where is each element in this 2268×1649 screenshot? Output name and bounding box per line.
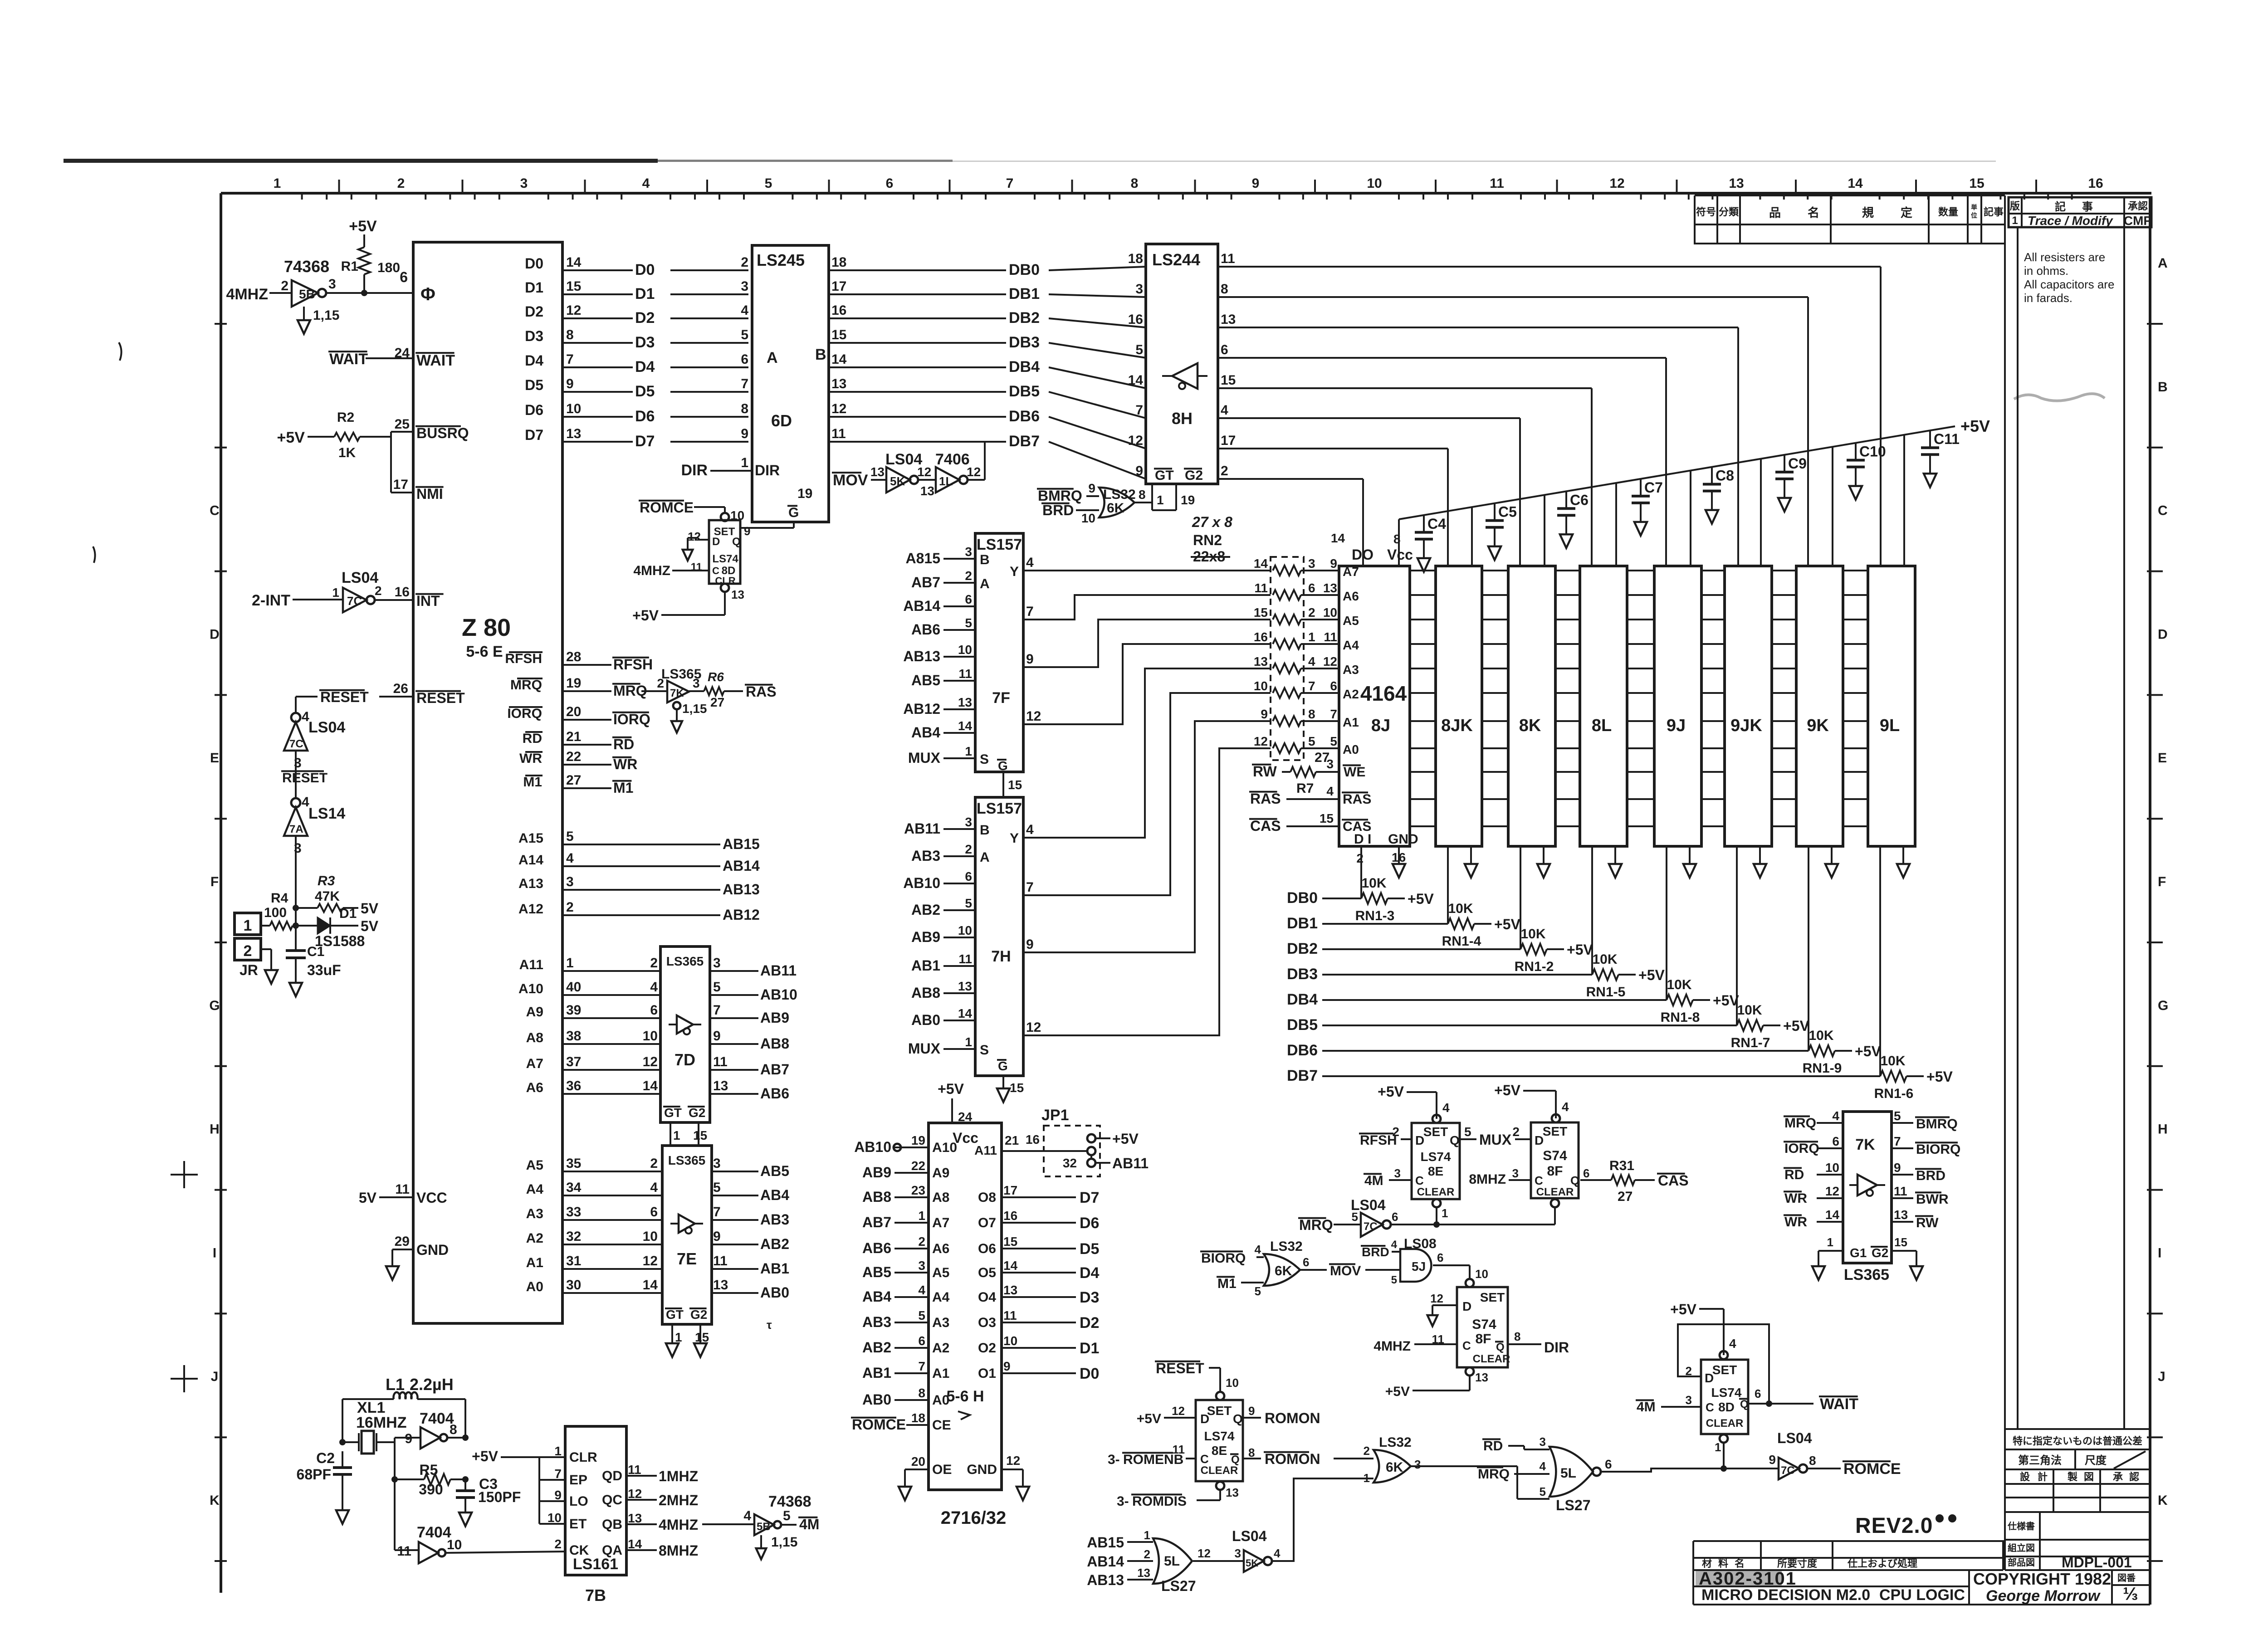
svg-text:RN1-3: RN1-3: [1355, 908, 1395, 923]
svg-text:30: 30: [566, 1278, 581, 1293]
svg-text:+5V: +5V: [1112, 1131, 1139, 1147]
svg-text:7B: 7B: [585, 1586, 606, 1605]
svg-text:H: H: [210, 1122, 220, 1137]
svg-text:6: 6: [741, 352, 748, 367]
svg-text:7A: 7A: [289, 823, 303, 835]
svg-text:2716/32: 2716/32: [941, 1508, 1007, 1528]
svg-text:12: 12: [628, 1487, 642, 1501]
svg-text:+5V: +5V: [1960, 417, 1990, 435]
svg-text:38: 38: [566, 1029, 581, 1044]
svg-text:6: 6: [965, 869, 972, 883]
svg-text:符号: 符号: [1696, 206, 1716, 218]
svg-text:6: 6: [1221, 342, 1228, 357]
svg-text:15: 15: [1010, 1081, 1024, 1095]
svg-text:4: 4: [1540, 1459, 1546, 1473]
svg-text:12: 12: [1026, 709, 1041, 724]
svg-text:事: 事: [2082, 201, 2093, 213]
svg-text:4: 4: [1274, 1547, 1281, 1560]
svg-text:7: 7: [1026, 604, 1034, 619]
svg-text:LS245: LS245: [757, 251, 805, 269]
svg-text:14: 14: [831, 352, 847, 367]
svg-text:5J: 5J: [1412, 1259, 1426, 1273]
svg-text:in farads.: in farads.: [2024, 291, 2072, 305]
svg-text:A1: A1: [932, 1366, 949, 1381]
svg-text:24: 24: [395, 346, 410, 361]
svg-text:LS27: LS27: [1161, 1578, 1196, 1594]
svg-text:AB13: AB13: [903, 648, 940, 664]
svg-text:9L: 9L: [1880, 716, 1900, 735]
svg-text:RN1-2: RN1-2: [1515, 959, 1554, 974]
svg-text:CAS: CAS: [1343, 819, 1371, 834]
svg-text:LS74: LS74: [1711, 1386, 1742, 1400]
svg-text:4: 4: [650, 1180, 658, 1195]
svg-text:12: 12: [1430, 1292, 1443, 1305]
svg-text:1: 1: [673, 1128, 680, 1142]
svg-text:AB2: AB2: [862, 1339, 891, 1356]
svg-text:5: 5: [765, 176, 772, 191]
svg-text:All resisters are: All resisters are: [2024, 250, 2105, 264]
svg-text:M1: M1: [613, 780, 633, 796]
svg-text:AB5: AB5: [862, 1264, 891, 1280]
svg-text:MICRO DECISION M2.0: MICRO DECISION M2.0: [1701, 1586, 1870, 1604]
svg-text:A3: A3: [526, 1206, 543, 1221]
svg-text:R1: R1: [341, 259, 358, 274]
svg-text:4: 4: [1729, 1337, 1736, 1351]
svg-text:6D: 6D: [771, 411, 792, 430]
svg-text:2: 2: [1512, 1125, 1520, 1139]
svg-text:A15: A15: [518, 831, 543, 846]
svg-text:LS04: LS04: [308, 719, 345, 736]
svg-text:版: 版: [2010, 200, 2020, 212]
svg-text:2: 2: [965, 842, 972, 856]
svg-text:A6: A6: [932, 1241, 949, 1256]
svg-text:5V: 5V: [361, 900, 379, 917]
svg-text:12: 12: [1609, 176, 1624, 191]
svg-text:14: 14: [1848, 176, 1863, 191]
svg-text:12: 12: [1006, 1454, 1020, 1468]
svg-text:D: D: [1535, 1133, 1544, 1147]
svg-text:3: 3: [1135, 282, 1143, 297]
svg-text:4164: 4164: [1360, 682, 1407, 705]
svg-text:1: 1: [741, 455, 748, 470]
svg-text:9: 9: [554, 1488, 562, 1502]
svg-text:DIR: DIR: [755, 462, 780, 478]
svg-text:5: 5: [1391, 1274, 1397, 1286]
svg-text:AB15: AB15: [1087, 1534, 1124, 1551]
svg-text:QC: QC: [602, 1493, 622, 1508]
svg-text:名: 名: [1735, 1558, 1745, 1569]
svg-text:D5: D5: [525, 377, 543, 393]
svg-text:AB6: AB6: [760, 1085, 789, 1102]
svg-text:12: 12: [917, 465, 931, 479]
svg-text:AB1: AB1: [862, 1365, 891, 1381]
svg-text:ROMDIS: ROMDIS: [1132, 1494, 1187, 1509]
svg-text:R6: R6: [708, 670, 724, 684]
svg-text:11: 11: [713, 1254, 728, 1268]
svg-text:記: 記: [2055, 200, 2066, 213]
svg-text:3: 3: [713, 956, 721, 971]
svg-text:4MHZ: 4MHZ: [1374, 1339, 1411, 1354]
svg-text:ET: ET: [569, 1517, 587, 1532]
svg-text:M1: M1: [523, 775, 542, 790]
svg-text:Φ: Φ: [420, 284, 435, 304]
svg-text:12: 12: [643, 1254, 658, 1268]
svg-text:12: 12: [1026, 1020, 1041, 1035]
svg-text:数量: 数量: [1938, 206, 1958, 218]
svg-text:ROMCE: ROMCE: [640, 499, 694, 516]
svg-text:D: D: [1462, 1299, 1471, 1313]
svg-text:GND: GND: [967, 1462, 997, 1477]
svg-text:4M: 4M: [1637, 1400, 1656, 1415]
svg-text:RN1-4: RN1-4: [1442, 934, 1481, 949]
svg-text:A: A: [2158, 256, 2168, 271]
svg-text:16: 16: [1128, 312, 1143, 327]
svg-text:13: 13: [1226, 1486, 1239, 1499]
svg-text:RAS: RAS: [1250, 790, 1281, 807]
svg-text:19: 19: [911, 1133, 925, 1147]
svg-text:AB5: AB5: [760, 1163, 789, 1179]
svg-text:7: 7: [1330, 707, 1337, 721]
svg-text:B: B: [980, 552, 990, 567]
svg-text:AB2: AB2: [911, 902, 940, 918]
svg-text:5L: 5L: [1560, 1466, 1576, 1481]
svg-text:MDPL-001: MDPL-001: [2062, 1554, 2132, 1571]
svg-text:所要寸度: 所要寸度: [1777, 1558, 1818, 1569]
svg-text:33: 33: [566, 1205, 581, 1220]
svg-text:15: 15: [1894, 1235, 1907, 1249]
svg-text:DB6: DB6: [1287, 1042, 1318, 1059]
svg-text:1: 1: [1442, 1206, 1448, 1220]
svg-text:100: 100: [264, 905, 287, 920]
svg-text:+5V: +5V: [472, 1448, 498, 1464]
svg-text:3: 3: [1308, 556, 1315, 571]
svg-text:REV2.0: REV2.0: [1855, 1514, 1933, 1538]
svg-text:Y: Y: [1010, 831, 1019, 846]
svg-text:28: 28: [566, 649, 581, 664]
svg-text:15: 15: [831, 327, 846, 342]
svg-text:IORQ: IORQ: [507, 706, 542, 721]
svg-text:AB3: AB3: [760, 1211, 789, 1228]
svg-text:D0: D0: [525, 255, 543, 272]
svg-text:DB4: DB4: [1287, 991, 1318, 1008]
svg-text:D5: D5: [1080, 1240, 1099, 1258]
svg-text:9: 9: [1026, 937, 1034, 952]
svg-text:AB10: AB10: [854, 1139, 891, 1155]
svg-text:5V: 5V: [359, 1190, 377, 1206]
svg-text:4: 4: [1026, 822, 1034, 837]
svg-text:図: 図: [2084, 1471, 2094, 1483]
svg-text:QB: QB: [602, 1517, 622, 1532]
svg-text:10K: 10K: [1880, 1054, 1905, 1068]
svg-text:C: C: [1200, 1452, 1209, 1466]
svg-text:8F: 8F: [1547, 1164, 1563, 1179]
svg-text:BWR: BWR: [1916, 1192, 1949, 1207]
svg-text:36: 36: [566, 1078, 581, 1093]
svg-text:7: 7: [741, 376, 748, 391]
svg-text:39: 39: [566, 1003, 581, 1018]
svg-text:7: 7: [713, 1003, 721, 1018]
svg-text:14: 14: [958, 719, 973, 733]
svg-text:6K: 6K: [1107, 501, 1124, 516]
svg-text:3: 3: [1686, 1393, 1692, 1407]
svg-text:12: 12: [1825, 1184, 1839, 1198]
svg-text:D4: D4: [525, 352, 543, 369]
svg-text:D7: D7: [1080, 1189, 1099, 1206]
svg-text:68PF: 68PF: [297, 1466, 331, 1483]
svg-text:A13: A13: [518, 876, 543, 891]
svg-text:20: 20: [566, 704, 581, 719]
svg-text:14: 14: [1825, 1208, 1840, 1222]
svg-text:35: 35: [566, 1156, 581, 1171]
svg-text:C: C: [1706, 1400, 1714, 1414]
svg-text:DB3: DB3: [1009, 334, 1040, 351]
svg-text:I: I: [2158, 1245, 2161, 1260]
svg-text:B: B: [2158, 380, 2168, 395]
svg-text:+5V: +5V: [938, 1081, 964, 1097]
svg-text:10: 10: [566, 401, 581, 416]
svg-text:LS161: LS161: [573, 1556, 618, 1573]
svg-text:RN2: RN2: [1193, 532, 1222, 548]
svg-text:32: 32: [1063, 1156, 1077, 1170]
svg-text:3: 3: [1235, 1547, 1241, 1560]
svg-text:RD: RD: [1483, 1439, 1503, 1454]
svg-text:+5V: +5V: [1713, 992, 1739, 1009]
svg-text:+5V: +5V: [349, 218, 377, 235]
svg-text:S: S: [980, 1043, 989, 1058]
svg-text:13: 13: [713, 1278, 728, 1293]
svg-text:MUX: MUX: [908, 1040, 941, 1057]
svg-text:16: 16: [395, 585, 410, 600]
svg-text:6: 6: [918, 1334, 925, 1348]
svg-text:2: 2: [375, 584, 382, 598]
svg-text:7K: 7K: [1855, 1136, 1875, 1153]
svg-text:10K: 10K: [1520, 927, 1545, 942]
svg-text:K: K: [2158, 1493, 2168, 1508]
svg-text:2.2µH: 2.2µH: [410, 1375, 454, 1394]
svg-text:11: 11: [1254, 581, 1268, 595]
svg-text:G: G: [998, 759, 1008, 773]
svg-text:G2: G2: [689, 1106, 705, 1120]
svg-text:17: 17: [1003, 1183, 1017, 1197]
svg-text:5-6 E: 5-6 E: [466, 643, 503, 660]
svg-text:F: F: [2158, 874, 2166, 889]
svg-text:IORQ: IORQ: [1784, 1141, 1819, 1156]
svg-text:O5: O5: [978, 1265, 996, 1280]
svg-text:9: 9: [1248, 1404, 1255, 1418]
svg-text:AB9: AB9: [911, 929, 940, 945]
svg-text:CAS: CAS: [1250, 818, 1281, 834]
svg-text:A: A: [980, 850, 990, 865]
svg-text:BIORQ: BIORQ: [1916, 1142, 1960, 1157]
svg-text:9K: 9K: [1807, 716, 1829, 735]
svg-text:+5V: +5V: [1378, 1083, 1404, 1100]
svg-text:B: B: [980, 823, 990, 838]
svg-text:17: 17: [831, 279, 846, 294]
svg-text:AB11: AB11: [904, 820, 940, 837]
svg-text:13: 13: [958, 695, 972, 709]
svg-text:5: 5: [1255, 1284, 1261, 1298]
svg-text:6: 6: [965, 592, 972, 606]
svg-text:5: 5: [1330, 734, 1337, 748]
svg-text:A7: A7: [526, 1056, 543, 1071]
svg-text:規: 規: [1862, 206, 1874, 220]
svg-text:CLEAR: CLEAR: [1201, 1464, 1238, 1477]
svg-text:EP: EP: [569, 1473, 587, 1488]
svg-text:6: 6: [1330, 679, 1337, 693]
svg-text:11: 11: [1221, 251, 1235, 266]
svg-text:7406: 7406: [935, 451, 970, 468]
svg-text:13: 13: [1003, 1283, 1017, 1297]
svg-text:15: 15: [566, 279, 581, 294]
svg-text:2: 2: [1364, 1444, 1370, 1458]
svg-text:Q: Q: [1740, 1398, 1749, 1410]
svg-text:6K: 6K: [1386, 1460, 1403, 1475]
svg-text:13: 13: [870, 465, 885, 479]
svg-text:D4: D4: [635, 358, 655, 376]
svg-text:仕様書: 仕様書: [2007, 1521, 2035, 1532]
svg-text:7H: 7H: [991, 948, 1011, 965]
svg-text:計: 計: [2038, 1471, 2048, 1483]
svg-text:9: 9: [1894, 1161, 1901, 1175]
svg-text:LS365: LS365: [1844, 1266, 1889, 1283]
svg-text:8E: 8E: [1212, 1444, 1227, 1458]
svg-text:ROMCE: ROMCE: [1843, 1460, 1901, 1478]
svg-text:180: 180: [377, 260, 400, 275]
svg-text:WAIT: WAIT: [1820, 1395, 1858, 1413]
svg-text:LS365: LS365: [668, 1153, 706, 1167]
svg-text:4: 4: [642, 176, 650, 191]
svg-text:A5: A5: [526, 1158, 543, 1173]
svg-text:7: 7: [1308, 679, 1315, 693]
svg-text:ROMON: ROMON: [1265, 1410, 1320, 1426]
svg-text:2: 2: [281, 278, 288, 293]
svg-text:10: 10: [1226, 1376, 1239, 1390]
svg-text:D1: D1: [339, 906, 357, 921]
svg-text:11: 11: [397, 1544, 411, 1559]
svg-text:D0: D0: [635, 261, 655, 278]
svg-text:4: 4: [1026, 555, 1034, 570]
svg-text:5-6 H: 5-6 H: [946, 1388, 984, 1405]
svg-text:9: 9: [1769, 1453, 1776, 1467]
svg-text:Q: Q: [1570, 1174, 1579, 1187]
svg-text:LS04: LS04: [1351, 1197, 1386, 1213]
svg-text:10K: 10K: [1737, 1003, 1762, 1018]
svg-text:RW: RW: [1253, 763, 1277, 780]
svg-text:13: 13: [1323, 581, 1337, 595]
svg-text:BRD: BRD: [1042, 502, 1074, 518]
svg-text:10K: 10K: [1592, 952, 1617, 967]
svg-text:Q: Q: [732, 536, 741, 548]
svg-text:7D: 7D: [675, 1050, 695, 1069]
svg-text:RESET: RESET: [1156, 1360, 1204, 1376]
svg-text:BUSRQ: BUSRQ: [416, 425, 469, 441]
svg-text:in ohms.: in ohms.: [2024, 264, 2068, 278]
svg-text:21: 21: [566, 729, 581, 744]
svg-text:5: 5: [1464, 1125, 1471, 1139]
svg-text:INT: INT: [416, 593, 440, 609]
svg-text:C5: C5: [1498, 504, 1517, 520]
svg-text:+5V: +5V: [277, 429, 305, 446]
svg-text:3: 3: [918, 1259, 925, 1273]
svg-text:AB12: AB12: [723, 907, 760, 923]
svg-text:16: 16: [831, 303, 846, 318]
svg-text:LS74: LS74: [1204, 1429, 1235, 1443]
svg-text:SET: SET: [1423, 1125, 1448, 1139]
svg-text:18: 18: [911, 1411, 925, 1425]
svg-text:AB1: AB1: [760, 1260, 789, 1277]
svg-text:G2: G2: [690, 1307, 707, 1322]
svg-text:D: D: [1415, 1133, 1424, 1147]
svg-text:JR: JR: [240, 962, 258, 978]
svg-text:7: 7: [713, 1205, 721, 1220]
svg-text:7E: 7E: [677, 1249, 697, 1268]
svg-text:1: 1: [1144, 1528, 1150, 1542]
svg-text:A815: A815: [906, 550, 941, 566]
svg-text:13: 13: [628, 1511, 642, 1525]
svg-text:5: 5: [1308, 734, 1315, 748]
svg-text:Vcc: Vcc: [1387, 546, 1413, 563]
svg-text:D: D: [712, 536, 720, 548]
svg-text:位: 位: [1971, 212, 1977, 219]
svg-text:G2: G2: [1872, 1246, 1888, 1260]
svg-text:10K: 10K: [1667, 977, 1691, 992]
svg-text:B: B: [815, 346, 826, 363]
svg-text:14: 14: [1331, 531, 1345, 545]
svg-text:7: 7: [1006, 176, 1014, 191]
svg-text:2: 2: [965, 569, 972, 583]
svg-text:AB6: AB6: [911, 621, 940, 638]
svg-text:+5V: +5V: [1926, 1068, 1953, 1085]
svg-text:AB9: AB9: [862, 1164, 891, 1181]
svg-text:GT: GT: [1155, 468, 1174, 483]
svg-text:LS244: LS244: [1152, 250, 1200, 269]
svg-text:MRQ: MRQ: [1784, 1116, 1816, 1131]
svg-text:2: 2: [1308, 605, 1315, 620]
svg-text:A4: A4: [932, 1290, 950, 1305]
svg-text:E: E: [210, 751, 219, 766]
svg-text:6K: 6K: [1275, 1264, 1292, 1278]
svg-text:3: 3: [1540, 1435, 1546, 1449]
svg-text:名: 名: [1808, 206, 1819, 220]
svg-text:WE: WE: [1344, 765, 1365, 780]
svg-text:LS74: LS74: [712, 553, 738, 565]
svg-text:13: 13: [1254, 654, 1268, 668]
svg-text:D1: D1: [635, 285, 655, 302]
svg-text:RN1-9: RN1-9: [1803, 1061, 1842, 1076]
svg-text:CLEAR: CLEAR: [1417, 1186, 1455, 1198]
svg-text:A1: A1: [1343, 715, 1359, 729]
svg-text:定: 定: [1901, 206, 1912, 220]
svg-text:QA: QA: [602, 1543, 622, 1558]
svg-text:仕上および処理: 仕上および処理: [1847, 1558, 1917, 1569]
svg-text:A4: A4: [1343, 638, 1359, 652]
svg-text:12: 12: [1198, 1547, 1211, 1560]
svg-text:LS27: LS27: [1556, 1497, 1590, 1513]
svg-text:DB3: DB3: [1287, 966, 1318, 983]
svg-text:材: 材: [1702, 1558, 1712, 1569]
svg-text:LS04: LS04: [1777, 1430, 1812, 1446]
svg-text:4M: 4M: [1364, 1173, 1383, 1188]
svg-text:5: 5: [1894, 1109, 1901, 1123]
svg-text:R7: R7: [1296, 781, 1314, 796]
svg-text:DB0: DB0: [1287, 889, 1318, 907]
svg-text:10K: 10K: [1361, 876, 1386, 891]
svg-text:15: 15: [1254, 605, 1268, 620]
svg-text:単: 単: [1971, 204, 1977, 211]
svg-text:5: 5: [965, 616, 972, 630]
svg-text:S74: S74: [1543, 1148, 1567, 1163]
svg-text:C9: C9: [1788, 455, 1807, 472]
